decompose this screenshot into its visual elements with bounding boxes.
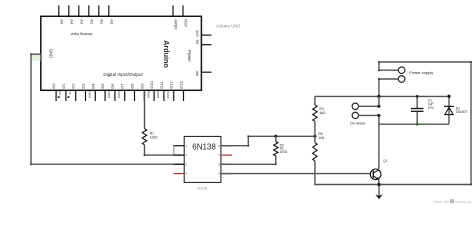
svg-text:D5: D5 xyxy=(100,83,105,89)
pin 5V xyxy=(201,44,211,46)
svg-text:4kΩ: 4kΩ xyxy=(320,111,326,115)
svg-text:Power supply: Power supply xyxy=(409,70,433,75)
svg-text:DC Motor: DC Motor xyxy=(350,122,366,126)
svg-text:PWM: PWM xyxy=(117,91,121,97)
svg-text:D10: D10 xyxy=(149,80,154,88)
pin 6 of U2 xyxy=(221,163,232,165)
pin A2 xyxy=(88,5,90,16)
svg-text:D3: D3 xyxy=(81,83,86,89)
pin 8 of U2 xyxy=(221,145,232,147)
diode D1 1N4007 xyxy=(448,96,450,106)
wire power- to V+ rail xyxy=(379,79,398,96)
pin D6 xyxy=(114,90,116,101)
wire motor-B / snubber bottom rail xyxy=(379,123,449,125)
pin 3 of U2 xyxy=(174,163,185,165)
svg-text:Vin: Vin xyxy=(195,71,199,76)
svg-text:PWM: PWM xyxy=(146,91,150,97)
wire pin5 to Q1 base xyxy=(221,173,371,175)
pin D9 xyxy=(143,90,145,101)
svg-text:A3: A3 xyxy=(79,19,84,25)
svg-text:D8: D8 xyxy=(130,83,135,89)
svg-text:Arduino UNO: Arduino UNO xyxy=(216,24,240,29)
svg-text:D12: D12 xyxy=(169,80,174,88)
wire R5 bottom to ground rail xyxy=(315,161,379,185)
svg-text:D6: D6 xyxy=(110,83,115,89)
pin D4 xyxy=(94,90,96,101)
pin A0 xyxy=(108,5,110,16)
svg-text:10kΩ: 10kΩ xyxy=(150,135,158,139)
svg-text:7: 7 xyxy=(218,153,220,157)
pin Vin xyxy=(201,71,211,73)
svg-text:RX: RX xyxy=(58,91,62,95)
transistor Q1 NPN xyxy=(370,169,381,180)
svg-text:5: 5 xyxy=(218,172,220,176)
svg-text:GND: GND xyxy=(48,49,53,58)
optocoupler U2 6N138 xyxy=(184,136,221,182)
node emitter/ground junction xyxy=(377,183,380,186)
svg-text:D7: D7 xyxy=(120,83,125,89)
svg-text:Power: Power xyxy=(187,50,192,62)
pin A3 xyxy=(78,5,80,16)
ground symbol xyxy=(378,185,380,196)
svg-text:5V: 5V xyxy=(195,40,199,45)
pin GND xyxy=(34,53,41,55)
pin A4 xyxy=(68,5,70,16)
svg-text:PWM: PWM xyxy=(88,91,92,97)
svg-text:D2: D2 xyxy=(71,83,76,89)
svg-text:D9: D9 xyxy=(139,83,144,89)
svg-text:Made with: Made with xyxy=(434,200,450,204)
svg-text:1N4007: 1N4007 xyxy=(456,110,468,114)
node R3 top junction xyxy=(274,135,277,138)
pin D1 xyxy=(65,90,67,101)
pin 3V3 xyxy=(201,34,211,36)
pin D2 xyxy=(75,90,77,101)
svg-text:D11: D11 xyxy=(159,81,164,89)
node R4/R5 junction xyxy=(313,135,316,138)
svg-text:A0: A0 xyxy=(109,19,114,25)
wire pin8 to V+ junction xyxy=(221,136,315,145)
svg-text:AREF: AREF xyxy=(174,19,179,30)
resistor R5 1k xyxy=(314,136,316,142)
svg-text:6N138: 6N138 xyxy=(192,143,216,152)
svg-text:D4: D4 xyxy=(90,83,95,89)
svg-text:D1: D1 xyxy=(61,83,66,89)
svg-text:3V3: 3V3 xyxy=(195,30,199,37)
pin D0 xyxy=(55,90,57,101)
resistor R1 10k xyxy=(142,129,146,145)
svg-text:Digital Input/Output: Digital Input/Output xyxy=(103,72,143,77)
pin D11 xyxy=(163,90,165,101)
svg-text:PWM: PWM xyxy=(107,91,111,97)
svg-text:PWM: PWM xyxy=(166,91,170,97)
pin 2 of U2 xyxy=(174,154,185,156)
pin D5 xyxy=(104,90,106,101)
pin D10 xyxy=(153,90,155,101)
svg-text:fritzing.org: fritzing.org xyxy=(455,200,471,204)
pin AREF xyxy=(172,5,174,16)
wire V+ rail xyxy=(315,95,449,97)
DC motor M1 xyxy=(352,103,358,109)
svg-text:TX: TX xyxy=(68,91,72,95)
wire R3 bottom to pin6 xyxy=(221,156,276,164)
svg-text:1kΩ: 1kΩ xyxy=(318,136,324,140)
pin 1 of U2 xyxy=(174,145,185,147)
svg-text:PWM: PWM xyxy=(156,91,160,97)
wire 6N138 pin1 tie to pin2 net xyxy=(173,146,175,155)
svg-text:A5: A5 xyxy=(59,19,64,25)
svg-text:3: 3 xyxy=(185,162,187,166)
wire R1 to 6N138 pin2 xyxy=(145,145,185,155)
pin A1 xyxy=(98,5,100,16)
svg-text:Analog Input: Analog Input xyxy=(70,32,93,37)
wire GND Arduino to 6N138 pin3 xyxy=(32,55,41,61)
svg-text:f: f xyxy=(451,200,452,204)
node power/motor junction xyxy=(377,95,380,98)
pin D3 xyxy=(85,90,87,101)
svg-text:A1: A1 xyxy=(99,19,104,25)
pin RST xyxy=(182,5,184,16)
wire D9 to R1 xyxy=(144,90,146,128)
Arduino board U1 xyxy=(41,16,202,90)
pin D12 xyxy=(173,90,175,101)
svg-text:6: 6 xyxy=(218,162,220,166)
svg-text:D13: D13 xyxy=(179,80,184,88)
pin D8 xyxy=(134,90,136,101)
wire power+ loop to ground rail (right edge) xyxy=(379,62,471,185)
svg-text:Arduino: Arduino xyxy=(162,40,171,68)
svg-text:2: 2 xyxy=(185,153,187,157)
svg-text:10V: 10V xyxy=(428,106,435,110)
svg-text:Q1: Q1 xyxy=(383,159,388,163)
svg-text:RST: RST xyxy=(184,19,189,28)
power supply connector J1 xyxy=(398,67,405,74)
svg-text:1: 1 xyxy=(185,144,187,148)
pin 4 of U2 xyxy=(174,173,185,175)
svg-text:100Ω: 100Ω xyxy=(280,150,288,154)
pin A5 xyxy=(58,5,60,16)
pin D7 xyxy=(124,90,126,101)
pin D13 xyxy=(183,90,185,101)
pin 5 of U2 xyxy=(221,173,232,175)
svg-text:A2: A2 xyxy=(89,19,94,25)
svg-text:4: 4 xyxy=(185,172,187,176)
resistor R3 100ohm xyxy=(275,136,277,141)
svg-text:D0: D0 xyxy=(51,83,56,89)
svg-text:6N138: 6N138 xyxy=(198,186,208,190)
pin 7 of U2 xyxy=(221,154,232,156)
resistor R4 4k xyxy=(314,96,316,105)
capacitor C1 1uF xyxy=(416,96,418,108)
wire motor term1 to V+ xyxy=(359,96,379,106)
svg-text:8: 8 xyxy=(218,144,220,148)
wire motor term2 to Q1 collector xyxy=(359,115,379,169)
svg-text:A4: A4 xyxy=(69,19,74,25)
